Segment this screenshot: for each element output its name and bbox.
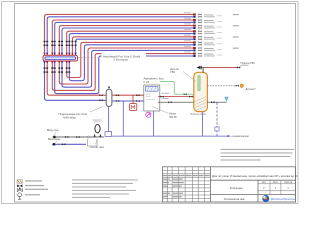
wire manifold supply from separator (red)	[47, 61, 106, 95]
wire return circuit 4 (blue)	[69, 34, 193, 56]
svg-text:Лит.: Лит.	[262, 181, 267, 184]
svg-text:Лист: Лист	[273, 181, 279, 184]
boiler outlet tags	[162, 93, 170, 99]
drain funnel symbol on safety drain	[215, 127, 219, 131]
valves on manifold risers (above)	[44, 41, 77, 46]
wire supply circuit 6 (red, hairpin under manifold)	[67, 42, 193, 77]
svg-text:Датчик t°: Датчик t°	[246, 87, 257, 91]
circuit 1 end fittings and tags	[184, 12, 239, 17]
gas meter	[93, 120, 102, 137]
svg-text:ГВС: ГВС	[170, 70, 175, 74]
legend notes list	[72, 179, 138, 198]
drain arrow and label	[228, 135, 249, 138]
wire gas line (black)	[53, 136, 104, 138]
wire cold feed (black) with safety tee	[158, 101, 227, 103]
wire return circuit 8 (blue, hairpin under manifold)	[55, 56, 193, 94]
wire boiler return (blue) separator to boiler	[112, 100, 144, 102]
svg-text:5 Контуров: 5 Контуров	[114, 57, 129, 61]
wire supply circuit 4 (red)	[67, 31, 193, 55]
wire tank drain (blue)	[202, 112, 204, 137]
wire main drain line (blue)	[112, 135, 228, 137]
valves before separator	[99, 94, 102, 101]
svg-text:30k Вт: 30k Вт	[169, 115, 178, 119]
title block grid	[163, 167, 296, 202]
gas inlet label	[47, 129, 59, 136]
svg-text:Листов: Листов	[284, 181, 292, 184]
circuit 7 end fittings and tags	[184, 46, 239, 52]
drain basin	[88, 139, 98, 146]
gas line fittings	[53, 136, 79, 138]
pump (magenta)	[146, 112, 151, 117]
wire manifold return to separator (blue)	[45, 61, 107, 100]
circuit 8 end fittings and tags	[184, 52, 222, 58]
indirect water heater tank	[194, 72, 208, 111]
sheet edge	[2, 2, 299, 204]
circuit 2 end fittings and tags	[184, 18, 222, 24]
wire separator drain (blue)	[108, 106, 110, 131]
svg-text:Котельная: Котельная	[230, 186, 243, 190]
tank temperature sensor line	[207, 84, 243, 88]
wire DHW outlet pipe (black riser + red line)	[197, 65, 243, 73]
wire drain from safety valve (blue)	[216, 103, 218, 137]
title block small texts	[163, 175, 210, 197]
wire return circuit 1 (blue)	[47, 17, 193, 56]
wire return circuit 7 (blue, hairpin under manifold)	[62, 50, 193, 87]
manifold port arrows	[43, 53, 77, 64]
valves on tank DHW pipe	[160, 96, 192, 98]
water inlet fittings	[53, 143, 66, 145]
wire supply circuit 7 (red, hairpin under manifold)	[59, 48, 193, 84]
expansion vessel group (red)	[130, 95, 137, 110]
circuit 6 end fittings and tags	[184, 40, 222, 46]
legend symbol: check valve	[17, 188, 22, 192]
valve on green line	[184, 93, 187, 95]
lit/list/listov headers	[262, 181, 293, 190]
gas meter label with leader	[90, 140, 105, 149]
wire return circuit 2 (blue)	[55, 22, 193, 55]
boiler label	[144, 77, 165, 84]
boiler (wall hung)	[144, 85, 160, 111]
svg-text:ВсеТеплоПроекты: ВсеТеплоПроекты	[271, 197, 295, 201]
svg-text:Подключение Fox Sola: Подключение Fox Sola	[59, 112, 88, 116]
hydraulic separator	[106, 86, 112, 106]
drawing frame	[15, 4, 296, 203]
wire return circuit 5 (blue)	[76, 39, 193, 55]
wire cold water inlet (blue)	[52, 143, 86, 145]
svg-text:Бойлер 200л: Бойлер 200л	[191, 112, 207, 116]
circuit 5 end fittings and tags	[184, 35, 239, 41]
legend symbol: pump	[17, 180, 22, 183]
valves on boiler pipes	[116, 94, 140, 102]
floor drain symbol	[105, 132, 112, 137]
gas line circle fitting	[87, 136, 89, 138]
wire boiler drain (blue)	[153, 111, 155, 136]
wire supply circuit 1 (red)	[45, 14, 194, 55]
boiler power label with leader	[153, 107, 178, 119]
svg-text:F 24: F 24	[144, 80, 150, 84]
wire return circuit 6 (blue, hairpin under manifold)	[69, 45, 193, 81]
wire boiler supply (red) separator to boiler	[112, 94, 144, 96]
valves on manifold drops (below)	[44, 67, 71, 72]
circuit 3 end fittings and tags	[184, 24, 239, 30]
svg-text:в канализацию: в канализацию	[232, 135, 249, 138]
svg-text:Подача ГВС: Подача ГВС	[241, 61, 256, 65]
wire return circuit 3 (blue)	[62, 28, 193, 55]
circuit 4 end fittings and tags	[184, 29, 222, 34]
DHW label	[241, 61, 256, 66]
svg-text:Дом по улице Установочная, сер: Дом по улице Установочная, серия «Комфор…	[212, 174, 298, 178]
svg-text:Ввод газа: Ввод газа	[47, 129, 59, 132]
DHW sensor label with leader	[170, 67, 196, 81]
floor connection label with leader	[59, 107, 104, 120]
notes text block	[221, 149, 295, 161]
legend symbol captions	[25, 180, 48, 195]
company logo	[262, 195, 269, 202]
svg-text:4х40 мбар: 4х40 мбар	[63, 115, 76, 119]
legend symbol: valve	[17, 184, 22, 187]
svg-text:Тепломонтаж инж: Тепломонтаж инж	[224, 198, 245, 201]
manifold (collector, 5 circuits)	[43, 55, 78, 61]
wire boiler to tank DHW pipe (red)	[158, 96, 194, 98]
wire cold water line (green)	[160, 82, 194, 95]
manifold label with leader	[78, 53, 146, 62]
wire supply circuit 8 (red, hairpin under manifold)	[52, 54, 193, 91]
cold water inlet label	[48, 138, 61, 143]
svg-text:Ввод воды: Ввод воды	[48, 138, 61, 141]
wire supply circuit 5 (red)	[72, 37, 193, 56]
wire supply circuit 2 (red)	[52, 20, 193, 55]
wire supply circuit 3 (red)	[59, 26, 193, 56]
legend symbol: thermometer	[18, 193, 22, 199]
wire pump group drain (blue)	[122, 101, 124, 136]
safety valve drop symbol	[225, 97, 229, 101]
